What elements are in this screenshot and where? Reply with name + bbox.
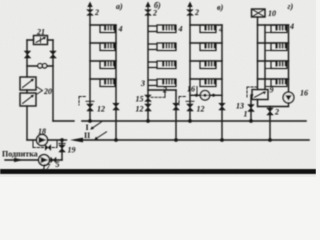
valve right pipe — [50, 51, 56, 58]
radiator b3 — [157, 61, 176, 69]
riser g return pipe — [264, 25, 266, 90]
pump 18 — [37, 135, 48, 146]
radiator a4 — [100, 79, 115, 87]
radiator b4 — [157, 79, 176, 87]
regulator box 21 — [34, 36, 48, 45]
riser g right drop — [288, 25, 290, 92]
bypass valve — [45, 145, 51, 151]
flow arrow main I — [90, 122, 101, 130]
radiator g1 — [271, 25, 287, 33]
wire stub right of junction — [62, 139, 67, 141]
riser v pipe — [189, 15, 191, 121]
scan mottle — [0, 0, 316, 177]
valve 12 riser a — [87, 104, 93, 111]
supply from main I to elevator — [251, 95, 253, 121]
radiator a2 — [100, 43, 115, 51]
radiator b1 — [157, 25, 176, 33]
pump bypass right drop — [56, 140, 58, 148]
riser a floor branches — [90, 24, 116, 26]
radiator a3 — [100, 61, 115, 69]
valve riser v return — [219, 103, 225, 110]
union tick riser v — [186, 100, 194, 102]
junction right of meter — [212, 94, 215, 97]
riser a vent arrow — [87, 2, 92, 10]
union tick riser a — [86, 100, 94, 102]
riser g supply pipe — [257, 17, 259, 90]
riser b return drop — [175, 90, 177, 140]
riser b vent arrow — [145, 2, 150, 10]
make-up flow arrow — [14, 158, 24, 162]
flow meter 16 riser g — [283, 92, 294, 103]
junction riser g main II — [268, 138, 272, 142]
junction left of meter — [195, 94, 198, 97]
riser g supply branches — [258, 24, 289, 26]
sleeve dashes riser v — [179, 97, 187, 106]
radiator g2 — [271, 43, 287, 51]
flow meter 16 — [200, 91, 209, 100]
wire box21 leads — [27, 39, 53, 41]
valve 13 — [248, 105, 254, 112]
riser g return stubs — [265, 33, 271, 87]
pump 17 — [39, 155, 50, 166]
valve 5 — [51, 157, 56, 163]
valve riser a return — [113, 103, 119, 110]
riser a return drop — [115, 25, 117, 140]
valve 2 riser g — [267, 108, 273, 115]
riser v vent arrow — [187, 2, 192, 10]
wire union cross line — [27, 65, 53, 67]
valve 2 riser a — [87, 10, 93, 16]
junction riser g main I — [249, 119, 253, 123]
riser b stubs — [148, 26, 157, 32]
riser v return drop — [221, 25, 223, 140]
make-up supply line — [5, 159, 62, 161]
wire make-up riser — [61, 140, 63, 160]
wire between heaters — [26, 90, 28, 93]
radiator g4 — [271, 79, 287, 87]
closing section dashes — [151, 91, 165, 97]
pump bypass dashed run — [33, 147, 57, 149]
heater box 20b — [20, 93, 36, 106]
main II end arrow — [70, 138, 83, 143]
flow arrow main II — [94, 132, 106, 140]
radiator a1 — [100, 25, 115, 33]
valve 2 riser v — [187, 10, 193, 16]
bottom rule band — [0, 169, 316, 174]
junction riser v main I — [188, 119, 192, 123]
junction riser a main II — [114, 138, 118, 142]
riser b offset run — [148, 89, 176, 91]
radiator v1 — [200, 25, 216, 33]
flow meter line riser v — [190, 94, 222, 96]
radiator g3 — [271, 61, 287, 69]
riser b pipe — [147, 15, 149, 121]
junction riser v main II — [220, 138, 224, 142]
junction riser b main I — [146, 119, 150, 123]
pump bypass left drop — [32, 140, 34, 148]
pointer to 20 — [37, 87, 43, 94]
radiator b2 — [157, 43, 176, 51]
junction pump discharge — [60, 138, 64, 142]
radiator v3 — [200, 61, 216, 69]
valve 12 riser b — [145, 104, 151, 111]
valve left pipe — [24, 51, 30, 58]
wire right pipe down — [52, 40, 54, 121]
wire pump suction line — [27, 139, 62, 141]
elevator 9 — [252, 90, 268, 100]
main I supply — [82, 120, 306, 122]
three-way valve 15 — [145, 95, 151, 102]
junction riser a main I — [88, 119, 92, 123]
radiator v4 — [200, 79, 216, 87]
radiator v2 — [200, 43, 216, 51]
junction riser b main II — [174, 138, 178, 142]
wire left pipe lower — [26, 106, 28, 140]
union circle 1 — [38, 64, 42, 68]
valve 12 riser v — [187, 104, 193, 111]
mixed return run — [258, 100, 289, 107]
sleeve dashes riser a — [79, 97, 87, 106]
union circle 2 — [42, 64, 46, 68]
wire main I feed segment — [53, 120, 74, 122]
riser a pipe — [89, 15, 91, 121]
valve 2 riser b — [145, 10, 151, 16]
elevator dashes — [247, 87, 259, 97]
valve 19 — [59, 143, 65, 152]
heater box 20a — [20, 77, 36, 90]
return drop riser g — [269, 107, 271, 141]
wire left pipe upper — [26, 40, 28, 77]
air collector 10 — [252, 9, 266, 17]
riser v floor branches — [190, 24, 222, 26]
rad v4 drain stub — [196, 87, 198, 96]
valve riser b return — [173, 103, 179, 110]
main II return — [80, 139, 309, 141]
